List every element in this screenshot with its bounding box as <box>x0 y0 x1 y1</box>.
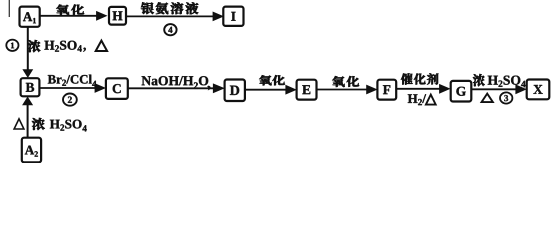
label oxidation-3 char yang <box>332 76 344 87</box>
arrow A2 up to B <box>27 103 29 137</box>
arrow D to E <box>245 89 288 91</box>
label H2SO4 comma <box>44 41 85 52</box>
label oxidation-2 char hua <box>272 75 284 85</box>
label catalyst char hua <box>414 73 426 84</box>
box G <box>451 81 472 102</box>
label silver-ammonia char rong <box>171 2 184 14</box>
box H <box>109 7 126 25</box>
arrow C to D <box>128 87 216 89</box>
box I <box>223 7 243 26</box>
label oxidation-1 char yang <box>56 5 69 15</box>
label oxidation-2 char yang <box>259 75 271 85</box>
label H2SO4 over A2 <box>50 120 87 132</box>
box C <box>106 78 128 99</box>
label oxidation-3 char hua <box>347 76 359 87</box>
arrow B to C <box>39 87 97 89</box>
label concentrated-2 char nong <box>32 118 45 130</box>
box D <box>225 80 245 102</box>
delta heat 1 <box>96 41 107 51</box>
label silver-ammonia char yin <box>141 2 154 14</box>
label Br2/CCl4 <box>48 75 97 87</box>
label H2SO4 over GX <box>488 76 526 88</box>
delta heat A2 <box>14 119 24 129</box>
label concentrated-3 char nong <box>473 74 485 86</box>
label concentrated-1 char nong <box>28 40 40 52</box>
arrow A1 to H <box>40 15 99 17</box>
label NaOH/H2O <box>142 76 209 89</box>
stray scan mark <box>8 0 10 17</box>
circled 4 <box>164 24 176 35</box>
circled 2 <box>63 94 77 106</box>
label oxidation-1 char hua <box>71 4 84 14</box>
delta heat 3 <box>482 94 493 103</box>
label silver-ammonia char ye <box>186 2 199 14</box>
arrow A1 down to B <box>27 27 29 71</box>
label silver-ammonia char an <box>156 2 169 14</box>
label H2/delta <box>408 94 426 105</box>
box B <box>21 78 40 96</box>
box X <box>527 80 550 100</box>
arrow F to G <box>396 88 441 90</box>
circled 1 <box>6 40 18 51</box>
box A1 <box>20 7 40 27</box>
box A2 <box>22 138 41 163</box>
arrow H to I <box>126 15 215 17</box>
arrow E to F <box>317 89 369 91</box>
box E <box>297 80 317 100</box>
comma speck after NaOH/H2O <box>207 86 211 91</box>
box F <box>377 80 396 100</box>
delta heat 2 <box>426 95 436 105</box>
arrow G to X <box>471 88 518 90</box>
circled 3 <box>500 92 512 103</box>
label catalyst char cui <box>401 73 413 84</box>
label catalyst char ji <box>427 73 438 84</box>
